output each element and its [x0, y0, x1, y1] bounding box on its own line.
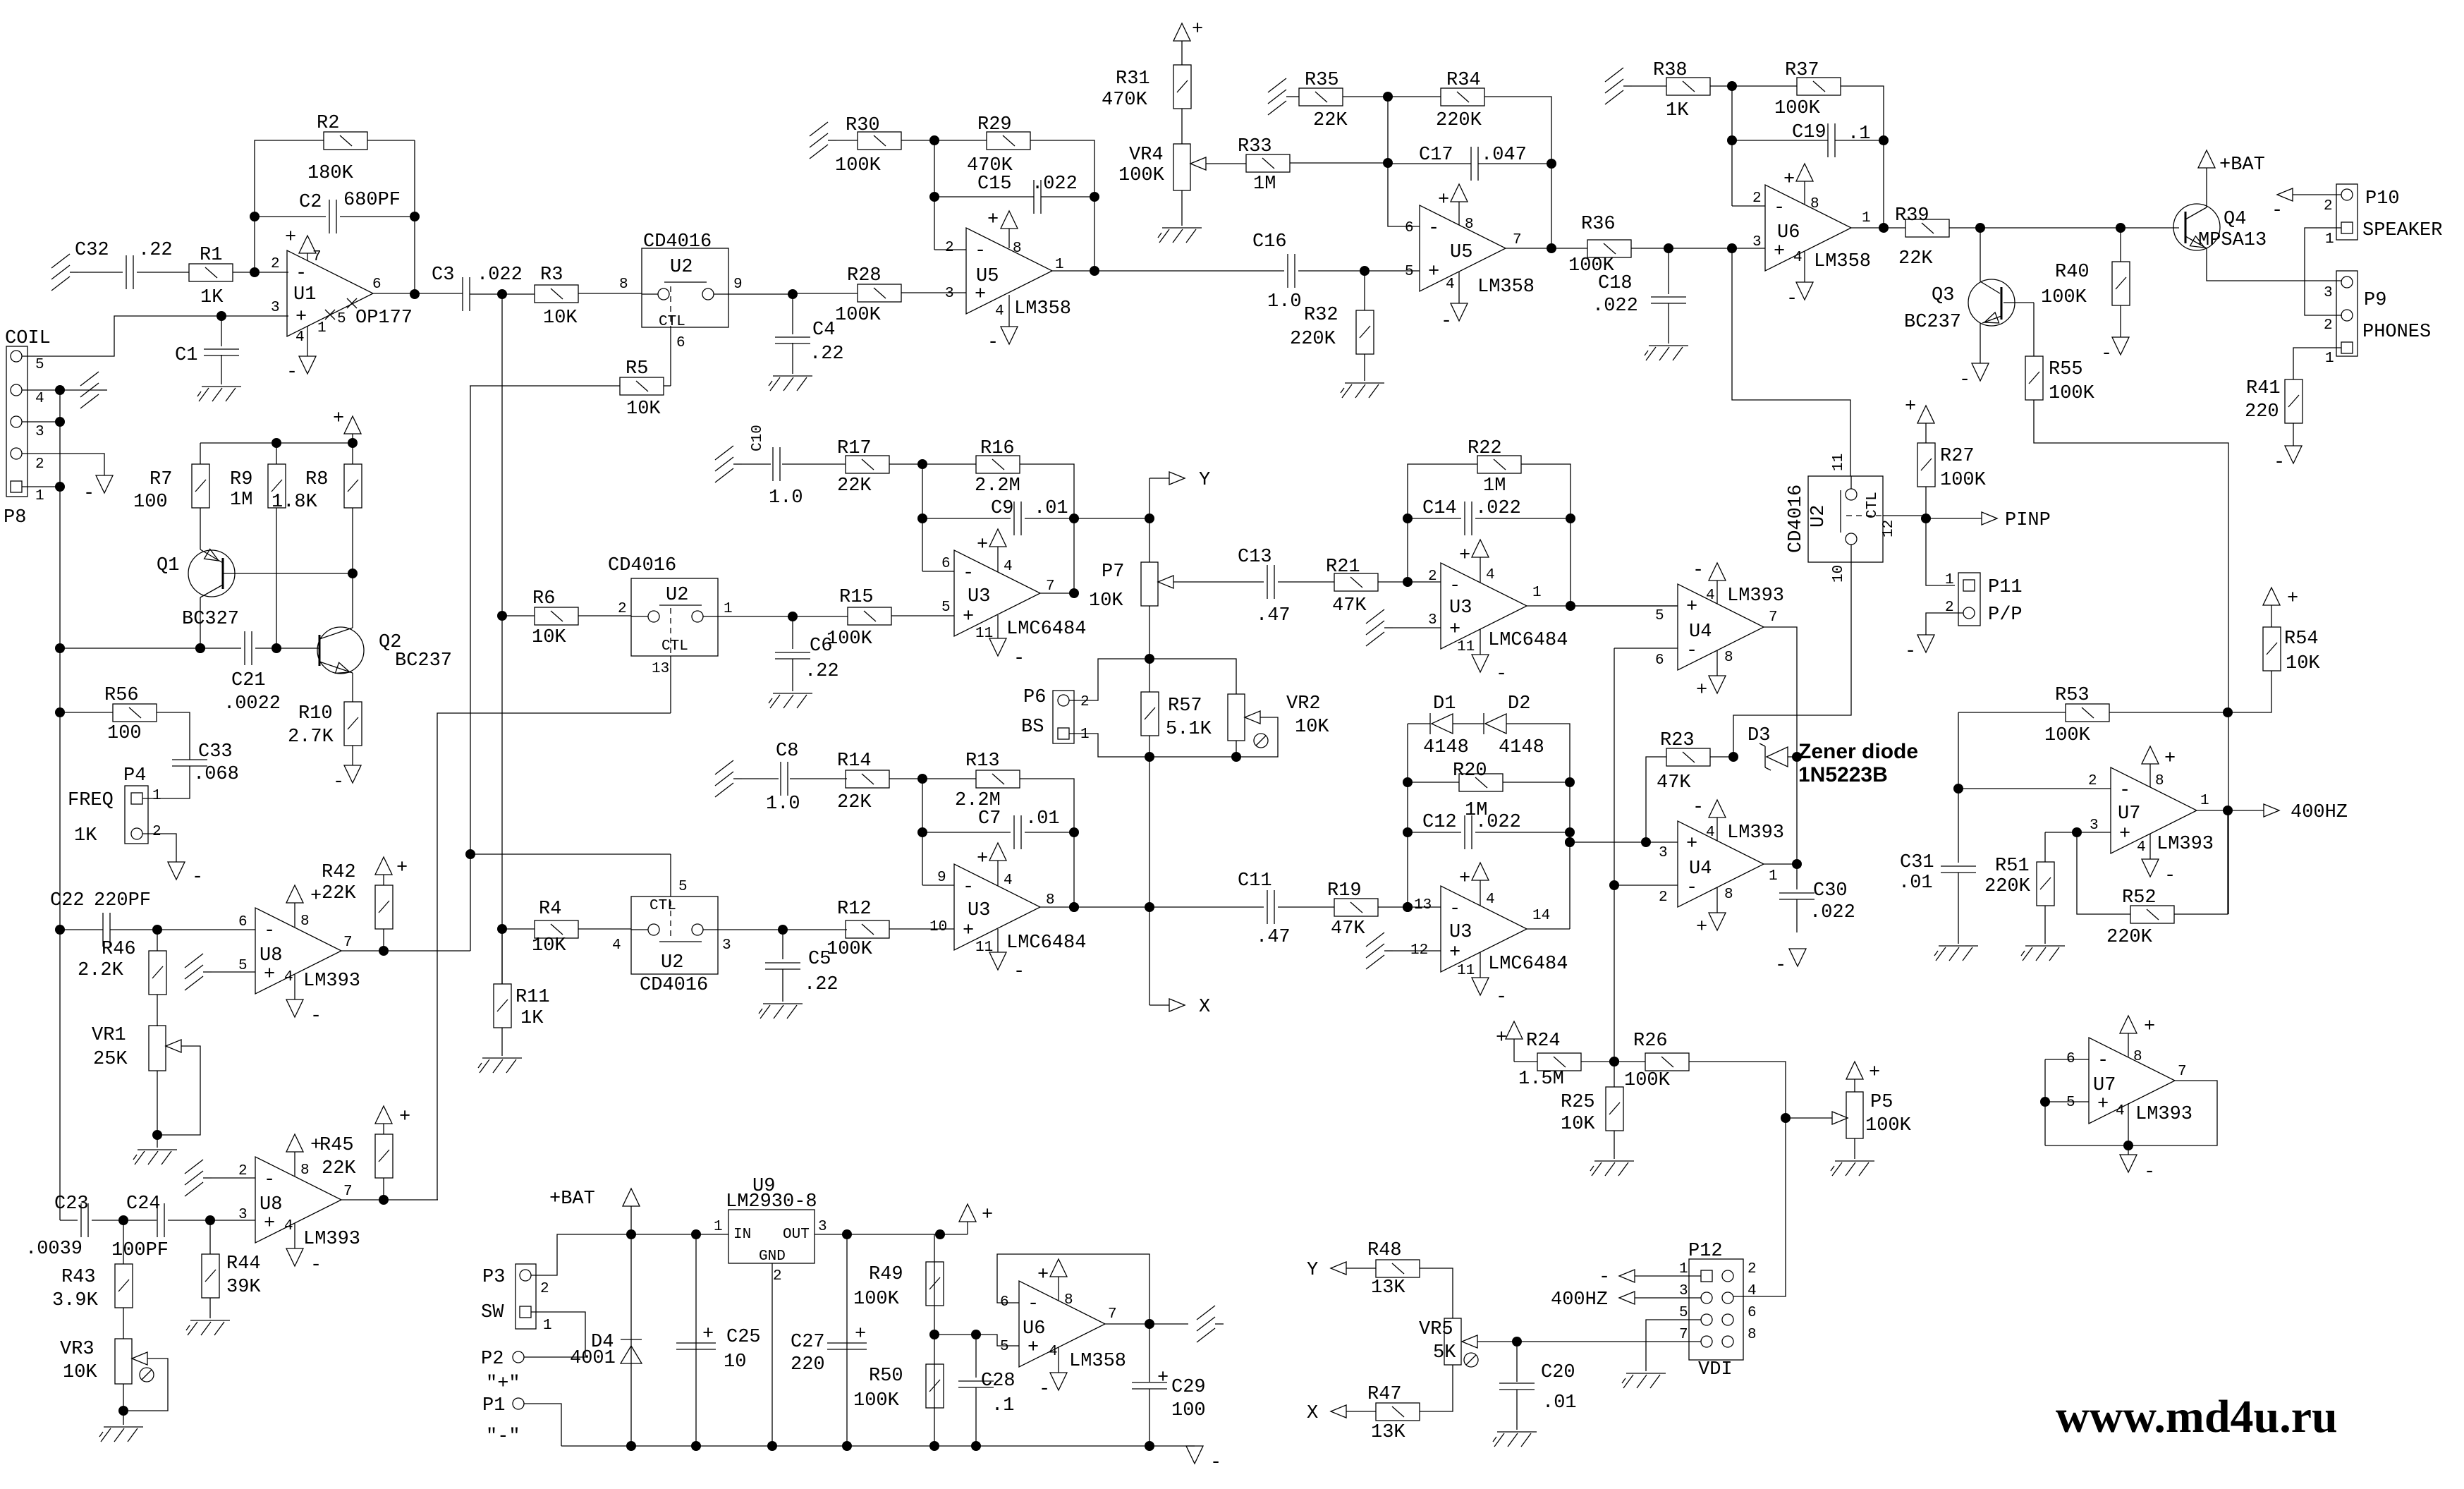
svg-text:+: +: [1428, 262, 1439, 283]
svg-text:-: -: [2097, 1050, 2109, 1071]
svg-text:1: 1: [35, 488, 44, 504]
svg-text:LM393: LM393: [1727, 585, 1784, 607]
svg-text:VDI: VDI: [1698, 1359, 1733, 1380]
svg-text:VR3: VR3: [60, 1339, 94, 1360]
svg-text:100K: 100K: [853, 1289, 900, 1310]
svg-text:.068: .068: [193, 764, 239, 785]
svg-text:P9: P9: [2364, 290, 2386, 311]
svg-text:-: -: [1599, 1267, 1610, 1288]
svg-text:C33: C33: [198, 741, 233, 762]
svg-text:2: 2: [945, 240, 954, 256]
svg-text:3: 3: [1659, 845, 1668, 861]
svg-text:VR1: VR1: [92, 1025, 126, 1046]
svg-text:4: 4: [284, 1218, 293, 1234]
svg-text:4148: 4148: [1499, 737, 1544, 758]
svg-text:-: -: [1905, 641, 1916, 662]
svg-text:.047: .047: [1481, 145, 1527, 166]
svg-text:7: 7: [1108, 1306, 1117, 1323]
svg-text:.1: .1: [1848, 123, 1870, 145]
svg-text:CTL: CTL: [649, 898, 676, 914]
svg-text:C21: C21: [231, 670, 266, 691]
svg-text:3: 3: [1428, 612, 1437, 628]
svg-text:+: +: [1686, 834, 1697, 855]
svg-text:4: 4: [1486, 567, 1495, 583]
svg-text:.0039: .0039: [25, 1239, 83, 1260]
svg-text:3: 3: [1679, 1283, 1688, 1299]
svg-text:R10: R10: [298, 703, 333, 724]
svg-text:R57: R57: [1168, 695, 1202, 717]
svg-text:8: 8: [1046, 892, 1055, 908]
svg-text:+: +: [2119, 824, 2130, 845]
svg-text:P1: P1: [482, 1395, 505, 1416]
svg-text:4: 4: [995, 303, 1004, 320]
svg-text:+: +: [987, 209, 999, 231]
svg-text:LM393: LM393: [2157, 834, 2214, 855]
svg-text:R31: R31: [1116, 68, 1150, 90]
svg-text:3.9K: 3.9K: [52, 1290, 99, 1311]
svg-text:X: X: [1199, 997, 1210, 1018]
svg-text:X: X: [1307, 1403, 1318, 1424]
svg-text:R9: R9: [230, 469, 252, 490]
svg-text:BC237: BC237: [395, 650, 452, 671]
svg-text:C9: C9: [991, 498, 1013, 519]
svg-text:-: -: [975, 241, 986, 262]
svg-text:.022: .022: [477, 265, 523, 286]
svg-text:R56: R56: [104, 685, 139, 706]
svg-text:R21: R21: [1326, 557, 1360, 578]
svg-text:-: -: [2119, 780, 2130, 801]
svg-text:.47: .47: [1256, 605, 1291, 626]
svg-text:C1: C1: [175, 345, 197, 366]
svg-text:+: +: [2097, 1094, 2109, 1115]
svg-text:10K: 10K: [543, 308, 578, 329]
svg-text:R40: R40: [2055, 262, 2090, 283]
svg-text:22K: 22K: [322, 1158, 356, 1179]
svg-text:9: 9: [937, 870, 946, 886]
svg-text:C24: C24: [126, 1193, 161, 1215]
svg-text:FREQ: FREQ: [68, 790, 114, 811]
svg-text:4: 4: [1049, 1344, 1058, 1360]
svg-text:-: -: [1039, 1379, 1050, 1400]
svg-text:22K: 22K: [837, 475, 872, 497]
svg-text:R22: R22: [1468, 438, 1502, 459]
svg-text:+: +: [2144, 1016, 2155, 1038]
svg-text:U2: U2: [666, 585, 688, 606]
svg-text:10K: 10K: [532, 627, 566, 648]
svg-text:.1: .1: [992, 1395, 1014, 1416]
svg-text:U8: U8: [260, 1194, 282, 1215]
svg-text:+: +: [1037, 1265, 1049, 1286]
svg-text:R24: R24: [1526, 1031, 1561, 1052]
svg-text:+: +: [1459, 868, 1470, 889]
svg-text:100K: 100K: [835, 305, 882, 326]
svg-text:180K: 180K: [307, 163, 354, 184]
svg-text:C29: C29: [1171, 1377, 1206, 1398]
svg-text:R51: R51: [1995, 856, 2030, 877]
svg-text:LM358: LM358: [1814, 251, 1871, 272]
svg-text:1M: 1M: [230, 490, 252, 511]
svg-text:R27: R27: [1940, 446, 1975, 467]
svg-text:-: -: [1428, 218, 1439, 239]
svg-text:R43: R43: [61, 1267, 96, 1288]
svg-text:C30: C30: [1813, 880, 1848, 901]
svg-text:+: +: [1774, 241, 1785, 262]
svg-text:R36: R36: [1581, 214, 1616, 235]
svg-text:+: +: [333, 408, 344, 430]
svg-text:1: 1: [1862, 210, 1871, 226]
svg-text:Q1: Q1: [157, 555, 179, 576]
svg-text:-: -: [1013, 648, 1025, 669]
svg-text:Y: Y: [1199, 470, 1210, 491]
svg-text:100K: 100K: [1865, 1115, 1912, 1136]
svg-text:C5: C5: [808, 949, 831, 970]
svg-text:D3: D3: [1748, 725, 1770, 746]
svg-text:+: +: [2164, 748, 2176, 770]
svg-text:1: 1: [1679, 1261, 1688, 1277]
svg-text:+: +: [310, 886, 322, 907]
svg-text:-: -: [1027, 1294, 1039, 1315]
svg-text:R23: R23: [1660, 730, 1695, 751]
svg-text:-: -: [2274, 452, 2285, 473]
svg-text:R49: R49: [869, 1264, 903, 1285]
svg-text:P8: P8: [4, 507, 26, 528]
svg-text:7: 7: [1046, 578, 1055, 595]
svg-text:-: -: [963, 877, 974, 898]
svg-text:4: 4: [1793, 250, 1803, 266]
svg-text:U2: U2: [1808, 505, 1829, 528]
svg-text:-: -: [83, 483, 94, 504]
svg-text:4: 4: [612, 937, 621, 954]
svg-text:100K: 100K: [1940, 470, 1987, 491]
svg-text:P5: P5: [1870, 1092, 1893, 1113]
svg-text:8: 8: [1810, 196, 1819, 212]
svg-text:D1: D1: [1433, 693, 1456, 715]
svg-text:4148: 4148: [1423, 737, 1469, 758]
svg-text:"+": "+": [486, 1373, 520, 1394]
svg-text:1: 1: [2200, 793, 2209, 809]
svg-text:P7: P7: [1102, 561, 1124, 583]
svg-text:-: -: [310, 1006, 322, 1027]
svg-text:R33: R33: [1238, 136, 1272, 157]
svg-text:C27: C27: [791, 1332, 825, 1353]
svg-text:8: 8: [300, 1162, 310, 1179]
svg-text:R41: R41: [2246, 378, 2281, 399]
svg-text:+: +: [963, 607, 974, 628]
svg-text:3: 3: [271, 300, 280, 316]
svg-text:C3: C3: [432, 265, 454, 286]
svg-text:+: +: [977, 535, 988, 556]
svg-text:U3: U3: [968, 900, 990, 921]
svg-text:GND: GND: [759, 1248, 786, 1265]
svg-text:10K: 10K: [626, 399, 661, 420]
svg-text:5: 5: [2066, 1095, 2075, 1111]
svg-text:2: 2: [1748, 1261, 1757, 1277]
svg-text:LM393: LM393: [1727, 822, 1784, 844]
svg-text:+: +: [1449, 619, 1460, 640]
svg-text:3: 3: [1752, 234, 1762, 250]
svg-text:+: +: [1192, 19, 1203, 40]
svg-text:25K: 25K: [93, 1049, 128, 1070]
svg-text:13: 13: [1414, 897, 1432, 913]
svg-text:R6: R6: [532, 588, 555, 609]
svg-text:LMC6484: LMC6484: [1006, 619, 1086, 640]
svg-text:11: 11: [975, 940, 993, 956]
svg-text:R25: R25: [1561, 1092, 1595, 1113]
svg-text:8: 8: [300, 913, 310, 930]
svg-text:5: 5: [941, 600, 951, 616]
svg-text:10: 10: [929, 919, 947, 935]
svg-text:-: -: [1210, 1452, 1221, 1473]
svg-text:+: +: [396, 858, 408, 879]
svg-text:C10: C10: [750, 425, 766, 451]
svg-text:22K: 22K: [1313, 110, 1348, 131]
svg-text:+: +: [963, 920, 974, 942]
svg-text:U7: U7: [2118, 803, 2140, 825]
svg-text:4: 4: [1004, 873, 1013, 889]
svg-text:U6: U6: [1023, 1318, 1045, 1339]
svg-text:4: 4: [1004, 559, 1013, 575]
svg-text:5: 5: [337, 311, 346, 327]
svg-text:1: 1: [714, 1219, 723, 1235]
svg-text:1: 1: [724, 601, 733, 617]
svg-text:1: 1: [2325, 231, 2334, 248]
svg-text:5: 5: [1679, 1305, 1688, 1321]
svg-text:R44: R44: [226, 1253, 261, 1275]
svg-text:R35: R35: [1305, 70, 1339, 91]
svg-text:100K: 100K: [2041, 287, 2087, 308]
svg-text:+: +: [1869, 1062, 1880, 1083]
svg-text:2: 2: [540, 1281, 549, 1297]
svg-text:.022: .022: [1810, 902, 1855, 923]
svg-text:8: 8: [1724, 887, 1733, 903]
svg-text:+BAT: +BAT: [549, 1189, 595, 1210]
svg-text:.22: .22: [810, 344, 844, 365]
svg-text:4: 4: [284, 969, 293, 985]
svg-text:10K: 10K: [1089, 590, 1123, 612]
svg-text:7: 7: [2178, 1064, 2187, 1080]
svg-text:VR5: VR5: [1419, 1319, 1453, 1340]
svg-text:R26: R26: [1633, 1031, 1668, 1052]
svg-text:4: 4: [2137, 839, 2146, 856]
svg-text:R54: R54: [2284, 628, 2319, 650]
svg-text:1.5M: 1.5M: [1518, 1069, 1564, 1090]
svg-text:+: +: [1027, 1337, 1039, 1359]
svg-text:C8: C8: [776, 741, 798, 762]
svg-text:12: 12: [1881, 520, 1897, 537]
svg-text:2.2K: 2.2K: [78, 960, 124, 981]
svg-text:R15: R15: [839, 587, 874, 608]
svg-text:-: -: [2101, 344, 2112, 365]
svg-text:8: 8: [1013, 241, 1022, 257]
svg-text:+: +: [1157, 1368, 1169, 1389]
svg-text:-: -: [963, 563, 974, 584]
svg-text:2.7K: 2.7K: [288, 727, 334, 748]
svg-text:5: 5: [1655, 608, 1664, 624]
svg-text:LM358: LM358: [1014, 298, 1071, 320]
svg-text:+: +: [1696, 917, 1707, 938]
svg-text:+: +: [1905, 396, 1916, 418]
svg-text:-: -: [1496, 664, 1507, 685]
svg-text:R20: R20: [1453, 760, 1487, 782]
svg-text:R52: R52: [2122, 887, 2157, 908]
svg-text:22K: 22K: [1898, 248, 1933, 269]
svg-text:680PF: 680PF: [343, 190, 401, 211]
svg-text:SW: SW: [481, 1302, 504, 1323]
svg-text:8: 8: [1465, 217, 1474, 233]
svg-text:5: 5: [678, 879, 688, 895]
svg-text:-: -: [1774, 197, 1785, 219]
svg-text:R14: R14: [837, 750, 872, 772]
svg-text:P11: P11: [1988, 577, 2023, 598]
svg-text:-: -: [2271, 200, 2283, 221]
svg-text:.01: .01: [1898, 873, 1933, 894]
svg-text:+BAT: +BAT: [2219, 154, 2265, 176]
svg-text:CD4016: CD4016: [608, 555, 676, 576]
svg-text:C25: C25: [726, 1327, 761, 1348]
svg-text:+: +: [399, 1107, 410, 1128]
svg-text:LMC6484: LMC6484: [1488, 630, 1568, 651]
svg-text:U8: U8: [260, 945, 282, 966]
svg-text:3: 3: [818, 1219, 827, 1235]
svg-text:-: -: [2164, 865, 2176, 887]
svg-text:3: 3: [945, 286, 954, 302]
svg-text:1.0: 1.0: [769, 487, 803, 509]
svg-text:1: 1: [1945, 572, 1954, 588]
svg-text:-: -: [1013, 961, 1025, 983]
svg-text:4: 4: [295, 329, 305, 346]
svg-text:.022: .022: [1475, 498, 1521, 519]
svg-text:8: 8: [1748, 1327, 1757, 1343]
svg-text:R4: R4: [539, 899, 561, 920]
svg-text:220PF: 220PF: [94, 890, 151, 911]
svg-text:1.8K: 1.8K: [272, 492, 318, 513]
svg-text:.0022: .0022: [224, 693, 281, 715]
svg-text:6: 6: [676, 335, 685, 351]
svg-text:100: 100: [133, 492, 168, 513]
svg-text:11: 11: [1831, 454, 1847, 471]
svg-text:LM393: LM393: [303, 971, 360, 992]
svg-text:C11: C11: [1238, 870, 1272, 892]
svg-text:2: 2: [35, 456, 44, 473]
svg-text:-: -: [987, 332, 999, 353]
svg-text:11: 11: [1457, 963, 1475, 979]
svg-text:C32: C32: [75, 240, 109, 261]
svg-text:6: 6: [372, 276, 382, 293]
svg-text:470K: 470K: [1102, 90, 1148, 111]
svg-text:8: 8: [2155, 773, 2164, 789]
svg-text:R42: R42: [322, 862, 356, 883]
svg-text:R16: R16: [980, 438, 1015, 459]
svg-text:7: 7: [1679, 1327, 1688, 1343]
svg-text:OUT: OUT: [783, 1227, 810, 1243]
svg-text:4: 4: [1706, 825, 1715, 841]
svg-text:R5: R5: [626, 358, 648, 379]
svg-text:7: 7: [343, 1184, 353, 1200]
svg-text:13: 13: [652, 661, 669, 677]
svg-text:8: 8: [619, 276, 628, 293]
svg-text:2: 2: [238, 1163, 248, 1179]
svg-text:3: 3: [238, 1207, 248, 1223]
svg-text:.22: .22: [138, 240, 173, 261]
svg-text:100K: 100K: [2044, 725, 2091, 746]
svg-text:C7: C7: [978, 808, 1001, 829]
svg-text:+: +: [1496, 1028, 1507, 1049]
svg-text:.022: .022: [1475, 812, 1521, 833]
svg-text:2: 2: [773, 1268, 782, 1284]
svg-text:C31: C31: [1900, 852, 1934, 873]
svg-text:39K: 39K: [226, 1277, 261, 1298]
svg-text:R1: R1: [200, 245, 222, 266]
svg-text:3: 3: [35, 424, 44, 440]
svg-text:8: 8: [1724, 650, 1733, 666]
svg-text:-: -: [1686, 640, 1697, 662]
svg-text:10K: 10K: [2286, 653, 2320, 674]
svg-text:4: 4: [35, 391, 44, 407]
svg-text:4001: 4001: [570, 1348, 616, 1369]
svg-text:2: 2: [1428, 569, 1437, 585]
svg-text:PHONES: PHONES: [2362, 322, 2431, 343]
svg-text:LM393: LM393: [2135, 1104, 2192, 1125]
svg-text:C28: C28: [981, 1371, 1016, 1392]
svg-text:Q4: Q4: [2224, 209, 2246, 230]
svg-text:CD4016: CD4016: [640, 975, 708, 996]
svg-text:P/P: P/P: [1988, 604, 2023, 626]
svg-text:-: -: [1775, 955, 1786, 976]
svg-text:2: 2: [618, 601, 627, 617]
svg-text:BC237: BC237: [1904, 312, 1961, 333]
svg-text:-: -: [1449, 899, 1460, 920]
svg-text:6: 6: [1748, 1305, 1757, 1321]
svg-text:+: +: [1438, 190, 1449, 211]
svg-text:"-": "-": [486, 1426, 520, 1447]
svg-text:2.2M: 2.2M: [975, 475, 1020, 497]
svg-text:-: -: [310, 1255, 322, 1276]
svg-text:-: -: [2144, 1162, 2155, 1183]
svg-text:R7: R7: [150, 469, 172, 490]
svg-text:2: 2: [271, 256, 280, 272]
svg-text:100: 100: [1171, 1400, 1206, 1421]
svg-text:100: 100: [107, 723, 142, 744]
svg-text:-: -: [286, 362, 298, 383]
svg-text:-: -: [1449, 576, 1460, 597]
svg-text:R2: R2: [317, 113, 339, 134]
svg-text:R34: R34: [1446, 70, 1481, 91]
svg-text:-: -: [264, 920, 275, 942]
svg-text:6: 6: [1655, 652, 1664, 669]
svg-text:2: 2: [1080, 694, 1090, 710]
svg-text:D2: D2: [1508, 693, 1530, 715]
svg-text:400HZ: 400HZ: [1551, 1289, 1608, 1311]
svg-text:-: -: [1441, 311, 1452, 332]
svg-text:220K: 220K: [2106, 927, 2153, 948]
svg-text:CD4016: CD4016: [643, 231, 712, 253]
svg-text:+: +: [1696, 680, 1707, 701]
svg-text:+: +: [1686, 597, 1697, 618]
svg-text:C19: C19: [1792, 122, 1826, 143]
svg-text:11: 11: [975, 626, 993, 642]
svg-text:+: +: [1783, 169, 1795, 190]
svg-text:7: 7: [312, 249, 322, 265]
svg-text:LM358: LM358: [1477, 276, 1535, 298]
svg-text:14: 14: [1532, 908, 1550, 924]
svg-text:R37: R37: [1785, 60, 1819, 81]
svg-text:5K: 5K: [1433, 1342, 1456, 1363]
svg-text:10K: 10K: [1561, 1114, 1595, 1135]
svg-text:2: 2: [2324, 198, 2333, 214]
svg-text:R46: R46: [102, 939, 136, 960]
svg-text:220: 220: [2245, 401, 2279, 423]
svg-text:2: 2: [2088, 773, 2097, 789]
